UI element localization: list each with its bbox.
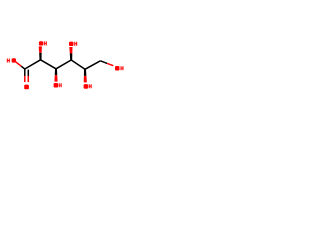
wire: bond HO-C1 (black half near C1) (21, 66, 25, 69)
wire: bond C1-C2 (25, 60, 41, 69)
wedge bond C4-OH red half (near O) (69, 47, 72, 54)
wedge bond C4-OH black half (near C4) (70, 54, 73, 61)
wedge bond C3-OH red half (near O) (54, 75, 57, 81)
wire: bond C6-OH red half (near O) (107, 63, 113, 65)
label OH (C2): H glyph (44, 41, 47, 45)
label OH (C6): O blob (115, 66, 120, 71)
bond C1=O inner line black upper (27, 70, 29, 76)
wedge bond C3-OH black half (near C3) (55, 69, 58, 75)
wedge bond C2-OH black half (near C2) (39, 53, 42, 60)
molecule: D-gluconic acid skeletal structure (0, 0, 130, 130)
label OH (C3): O blob (54, 83, 59, 88)
label HO: O blob (12, 58, 16, 62)
bond C1=O double bond, outer line black upper (24, 69, 26, 76)
background (0, 0, 130, 130)
wire: bond C6-OH black half (near C6) (100, 61, 107, 64)
wire: bond C3-C4 (56, 60, 71, 69)
wire: bond C4-C5 (71, 60, 85, 69)
label OH (C5): H glyph (89, 84, 92, 88)
label OH (C5): O blob (84, 84, 89, 89)
wedge bond C5-OH red half (near O) (84, 76, 87, 83)
bond C1=O inner line red lower (27, 76, 29, 82)
wedge bond C2-OH red half (near O) (39, 46, 42, 52)
label OH (C2): O blob (39, 41, 43, 45)
label OH (C6): H glyph (121, 66, 124, 70)
label OH (C4): O blob (69, 42, 74, 46)
bond C1=O outer line red lower (24, 76, 26, 82)
wire: bond HO-C1 (red half near O) (15, 61, 21, 66)
label HO (carboxyl hydroxyl): H glyph (7, 59, 10, 63)
wire: bond C5-C6 (85, 61, 100, 70)
label OH (C3): H glyph (59, 83, 62, 87)
label OH (C4): H glyph (74, 42, 77, 46)
label O (carbonyl): O blob (24, 85, 29, 90)
wire: bond C2-C3 (41, 60, 57, 69)
wedge bond C5-OH black half (near C5) (84, 69, 87, 76)
